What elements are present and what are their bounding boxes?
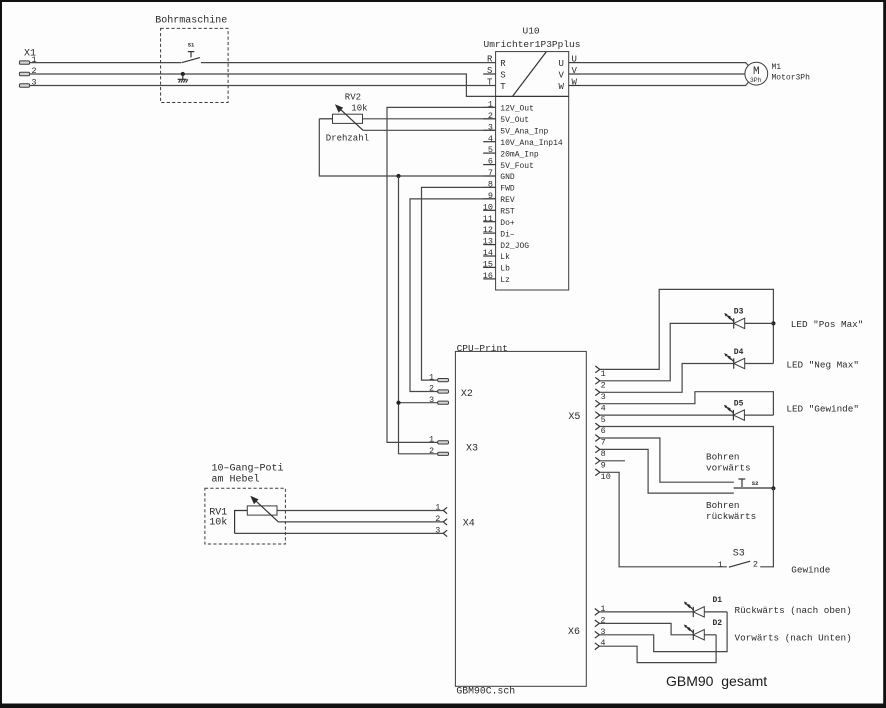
svg-text:M1: M1 [772,63,782,72]
svg-text:12V_Out: 12V_Out [500,105,534,114]
svg-text:2: 2 [429,446,434,456]
svg-text:10k: 10k [209,517,227,529]
svg-text:12: 12 [483,225,493,235]
wire D1 anode [704,611,727,613]
wire X5.8 to S2 lower contact [600,449,734,493]
svg-text:15: 15 [483,260,493,270]
wire V to motor [582,73,745,75]
wire X5.4 to D5 anode return [600,392,774,415]
wire X5.3 to LED D4 [600,364,734,393]
svg-text:Bohren: Bohren [706,451,739,462]
svg-text:V: V [572,66,578,76]
svg-text:5V_Fout: 5V_Fout [500,162,534,171]
svg-text:Bohren: Bohren [706,500,739,511]
svg-text:GBM90 gesamt: GBM90 gesamt [666,673,767,689]
svg-text:U10: U10 [523,26,540,37]
svg-text:10V_Ana_Inp14: 10V_Ana_Inp14 [500,139,563,148]
wire X5.1 to LED cathode rail [600,289,774,369]
LED D5 [724,399,744,420]
connector X4 [435,503,475,537]
svg-text:5: 5 [488,145,493,155]
junction X2.3 [396,401,400,405]
svg-text:1: 1 [32,55,37,65]
wire FWD to X2.1 [422,187,496,380]
svg-text:10–Gang–Poti: 10–Gang–Poti [212,463,284,475]
svg-text:D3: D3 [734,308,744,317]
svg-text:V: V [559,71,565,81]
svg-text:FWD: FWD [500,185,515,194]
svg-text:U: U [572,55,577,65]
svg-text:CPU–Print: CPU–Print [457,343,508,354]
svg-text:Rückwärts (nach oben): Rückwärts (nach oben) [735,605,852,616]
ground PE [178,72,188,83]
svg-text:LED ″Neg Max″: LED ″Neg Max″ [786,360,859,371]
svg-text:LED ″Gewinde″: LED ″Gewinde″ [786,404,859,415]
connector X1 [19,49,36,88]
svg-text:20mA_Inp: 20mA_Inp [500,150,539,159]
svg-text:D1: D1 [713,596,723,605]
potentiometer RV1 [209,496,278,534]
wire RV2 left arm down to GND rail [319,119,398,176]
svg-text:S: S [487,66,492,76]
svg-text:3: 3 [435,525,440,535]
LED D3 [724,308,744,329]
wire U to motor [582,63,749,66]
wire mains L1 (S1 to U10 pin R) [201,62,496,64]
svg-text:rückwärts: rückwärts [706,511,756,522]
svg-text:5V_Ana_Inp: 5V_Ana_Inp [500,128,548,137]
svg-text:Gewinde: Gewinde [791,564,830,575]
svg-text:R: R [500,59,506,69]
svg-text:Umrichter1P3Pplus: Umrichter1P3Pplus [484,39,581,50]
LED D1 [684,596,722,617]
wire RV1 left arm to X4.3 [235,532,444,534]
wire X5.7 to S2 upper contact [600,438,734,482]
wire X6.1 to LED D1 [599,611,693,613]
Bohrmaschine enclosure [155,15,228,103]
wire S3 to S2 common [760,488,773,567]
CPU-Print board [455,343,586,697]
svg-text:6: 6 [488,157,493,167]
U10 left pins 1-16 [483,100,563,286]
wire GND vertical to X2.3 and X3.2 [399,176,438,454]
svg-text:GBM90C.sch: GBM90C.sch [456,686,515,697]
svg-text:8: 8 [601,449,606,459]
wire X5.6 to S2 common [600,427,774,489]
svg-text:R: R [487,55,493,65]
svg-text:W: W [572,78,578,88]
wire 5V_Out to RV2 right lead [363,118,496,120]
10-Gang-Poti enclosure [205,463,286,545]
svg-text:X5: X5 [568,412,580,423]
svg-text:X2: X2 [461,389,473,400]
motor M1 [745,62,810,85]
svg-text:1: 1 [429,435,434,445]
svg-text:D2_JOG: D2_JOG [500,242,529,251]
svg-text:Motor3Ph: Motor3Ph [772,73,811,82]
svg-text:GND: GND [500,173,515,182]
svg-text:9: 9 [601,461,606,471]
svg-text:D2: D2 [713,619,723,628]
svg-text:1: 1 [718,560,723,570]
wire 5V_Ana_Inp to RV2 wiper [363,129,496,131]
svg-text:S2: S2 [752,480,759,487]
potentiometer RV2 [319,92,369,143]
svg-text:RST: RST [500,208,515,217]
LED D4 [724,348,744,369]
svg-text:4: 4 [488,134,493,144]
wire REV to X2.2 [410,199,496,392]
svg-text:5: 5 [601,415,606,425]
svg-text:Lb: Lb [500,265,510,274]
wire GND rail to U10 pin 7 [399,175,496,177]
svg-text:Do+: Do+ [500,219,515,228]
svg-text:3Ph: 3Ph [750,77,762,84]
svg-text:S3: S3 [733,548,745,559]
svg-text:1: 1 [601,369,606,379]
wire X5.2 to LED D3 [600,323,734,380]
wire mains L1 (X1.1 to S1) [30,62,182,64]
svg-text:Vorwärts (nach Unten): Vorwärts (nach Unten) [735,633,852,644]
wire D4 anode to rail [745,363,774,365]
wire RV1 right lead to X4.1 [277,510,443,512]
junction S2 common [771,486,775,490]
svg-text:6: 6 [601,426,606,436]
wire X5.10 to S3 [600,472,727,567]
svg-text:5V_Out: 5V_Out [500,116,529,125]
svg-text:T: T [487,78,493,88]
svg-text:X3: X3 [466,443,478,454]
wire X2.3 branch [399,402,438,404]
svg-text:3: 3 [601,392,606,402]
connector X2 [429,372,473,405]
stub X5.9 [600,460,625,462]
wire mains L3 (X1.3 to U10 pin T) [30,85,496,87]
wire mains L2 (X1.2 to jog) [30,74,496,96]
svg-text:S: S [500,71,505,81]
svg-text:13: 13 [483,237,493,247]
wire X6.2 to LED D2 [599,623,693,634]
svg-text:vorwärts: vorwärts [706,462,751,473]
svg-text:2: 2 [32,66,37,76]
svg-text:Bohrmaschine: Bohrmaschine [155,15,227,27]
wire RV1 wiper to X4.2 [278,521,443,523]
switch S1 [182,42,200,63]
connector X5 [568,366,610,482]
svg-text:Lz: Lz [500,276,510,285]
wire 12V_Out to X3.1 [387,107,496,442]
svg-text:7: 7 [488,168,493,178]
svg-text:am Hebel: am Hebel [212,473,260,485]
inverter U10 [483,26,582,291]
wire X5.5 to LED D5 [600,414,734,416]
junction GND rail [396,174,400,178]
switch S3 [718,548,758,570]
svg-text:Di–: Di– [500,230,515,239]
svg-text:10: 10 [601,472,611,482]
wire X6.3 to D1 return [599,612,727,652]
wire D5 anode to return [744,414,773,416]
svg-text:2: 2 [753,559,758,569]
switch S2 [734,479,774,488]
svg-text:Lk: Lk [500,253,510,262]
svg-text:1: 1 [435,503,440,513]
svg-text:D5: D5 [734,399,744,408]
svg-text:U: U [559,59,564,69]
svg-text:16: 16 [483,271,493,281]
svg-text:7: 7 [601,438,606,448]
svg-text:1: 1 [429,372,434,382]
svg-text:RV2: RV2 [345,92,361,102]
wire D2 anode [704,634,716,636]
svg-text:X4: X4 [463,519,475,530]
svg-text:4: 4 [601,403,606,413]
svg-text:LED ″Pos Max″: LED ″Pos Max″ [791,319,864,330]
svg-text:REV: REV [500,196,515,205]
wire W to motor [582,82,749,85]
svg-text:10: 10 [483,202,493,212]
LED D2 [684,619,722,640]
svg-text:2: 2 [429,384,434,394]
svg-text:3: 3 [32,78,37,88]
svg-text:2: 2 [601,381,606,391]
svg-text:10k: 10k [351,104,367,114]
wire D3 anode to rail [745,322,774,324]
svg-text:X6: X6 [568,627,580,638]
svg-text:S1: S1 [188,42,195,49]
svg-text:2: 2 [435,514,440,524]
svg-text:D4: D4 [734,348,744,357]
svg-text:T: T [500,82,506,92]
svg-text:14: 14 [483,248,493,258]
junction D3 cathode rail [771,321,775,325]
svg-text:11: 11 [483,214,493,224]
svg-text:3: 3 [429,395,434,405]
svg-text:Drehzahl: Drehzahl [326,134,369,144]
connector X6 [568,604,606,650]
wire X6.4 to D2 return [599,635,716,663]
svg-text:W: W [559,82,565,92]
connector X3 [429,435,478,456]
